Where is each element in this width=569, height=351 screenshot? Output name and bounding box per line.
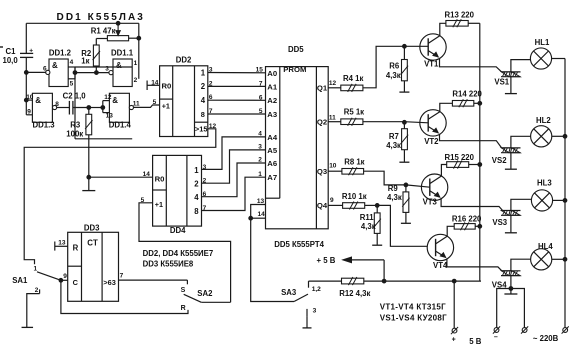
- svg-text:VT3: VT3: [423, 197, 438, 206]
- svg-text:DD1.2: DD1.2: [49, 49, 72, 58]
- wire DD1.4 output to DD2 +1 input: [134, 105, 160, 107]
- triac VS1: [501, 72, 521, 77]
- svg-text:10: 10: [329, 163, 337, 170]
- label HL3: [537, 179, 552, 188]
- pin 5 of DD5: [259, 108, 263, 115]
- wire R16 to +5V bus: [475, 225, 480, 227]
- label R15 value: [445, 153, 475, 162]
- label VS1: [494, 78, 509, 87]
- triac VS2: [501, 148, 521, 153]
- node R14 bus: [478, 101, 482, 105]
- capacitor C1: [20, 23, 33, 72]
- node VT2 base: [403, 120, 407, 124]
- label VT2: [424, 137, 439, 146]
- ground below R3: [82, 177, 95, 190]
- svg-text:VT1: VT1: [424, 60, 439, 69]
- svg-text:R11: R11: [360, 213, 375, 222]
- svg-text:&: &: [112, 96, 118, 105]
- label VT types: [380, 302, 446, 311]
- svg-text:>15: >15: [195, 125, 208, 134]
- label DD1.3: [33, 120, 56, 129]
- label DD3 type: [143, 260, 194, 269]
- svg-text:CT: CT: [87, 239, 98, 248]
- svg-text:PROM: PROM: [283, 65, 306, 74]
- label DD1.2: [49, 49, 72, 58]
- label C2 value: [63, 91, 87, 100]
- pin 15 of DD5: [256, 67, 264, 74]
- label R14 value: [452, 89, 482, 98]
- svg-text:+: +: [452, 337, 456, 344]
- wire R10 to VT4 base: [365, 205, 428, 246]
- svg-text:9: 9: [27, 108, 31, 115]
- svg-text:R5 1к: R5 1к: [344, 108, 364, 117]
- wire VS4 node to - terminal: [497, 289, 511, 328]
- svg-text:A4: A4: [267, 133, 278, 142]
- svg-text:HL3: HL3: [537, 179, 552, 188]
- contact 1 label of SA1: [34, 266, 38, 273]
- node R16 bus: [478, 224, 482, 228]
- node VT3 base: [404, 183, 408, 187]
- svg-text:14: 14: [151, 80, 159, 87]
- svg-text:3: 3: [313, 308, 317, 315]
- label R10 value: [342, 192, 367, 201]
- node HL3 bus: [563, 199, 567, 203]
- svg-text:R10 1к: R10 1к: [342, 192, 367, 201]
- pin 6 of DD5: [259, 94, 263, 101]
- label R3 value: [66, 121, 83, 139]
- svg-text:15: 15: [256, 67, 264, 74]
- wire DD2 out 4 to DD5 A2: [208, 99, 266, 101]
- transistor VT1: [420, 34, 446, 60]
- svg-text:2: 2: [258, 157, 262, 164]
- svg-text:2: 2: [201, 82, 206, 91]
- counter DD3: [68, 232, 119, 301]
- svg-text:R16 220: R16 220: [452, 215, 482, 224]
- wire R13 to +5V bus: [468, 22, 480, 24]
- wire DD3 >63 output to SA2 S contact: [119, 280, 188, 284]
- svg-text:HL1: HL1: [535, 38, 550, 47]
- pin 13 label of DD5: [257, 198, 265, 205]
- label C1 value: [3, 47, 19, 65]
- wire R4 to VT1 base: [363, 46, 405, 88]
- svg-text:2: 2: [134, 77, 138, 84]
- label VT3: [423, 197, 438, 206]
- svg-text:SA3: SA3: [281, 288, 297, 297]
- gate DD1.4 (NAND): [101, 93, 134, 122]
- wire SA3 contact to R12: [309, 280, 342, 282]
- resistor R2: [93, 39, 108, 73]
- label VS4: [492, 281, 507, 290]
- wire +5V bus vertical: [479, 23, 481, 281]
- svg-text:C1: C1: [6, 47, 17, 56]
- svg-text:2: 2: [35, 287, 39, 294]
- transistor VT3: [421, 174, 447, 200]
- svg-text:5: 5: [153, 99, 157, 106]
- label DD5: [288, 45, 304, 54]
- svg-text:DD1.3: DD1.3: [33, 120, 56, 129]
- counter DD2: [160, 66, 208, 137]
- label R1 value: [91, 26, 116, 35]
- resistor R16: [454, 222, 475, 230]
- wire DD2 out 8 to DD5 A3: [208, 113, 266, 115]
- wire DD2 out 1 to DD5 A0: [208, 72, 266, 74]
- svg-text:DD1 К555ЛА3: DD1 К555ЛА3: [57, 12, 145, 23]
- svg-text:A1: A1: [267, 83, 278, 92]
- switch SA3 arm: [294, 294, 308, 301]
- svg-text:+1: +1: [155, 200, 163, 209]
- wire R3 node to DD4 R0 pin 14: [89, 176, 153, 178]
- svg-text:VT2: VT2: [424, 137, 439, 146]
- wire DD4 out 8 to DD5 A7: [202, 177, 266, 210]
- transistor VT4: [427, 234, 453, 260]
- wire DD5 Q3 to R8: [328, 170, 342, 172]
- wire node to VT3 base: [406, 185, 430, 187]
- label SA1: [12, 276, 28, 285]
- wire DD5 pins 13/14 to SA3 common: [251, 218, 294, 301]
- left margin mark: [0, 46, 3, 48]
- svg-text:14: 14: [258, 211, 266, 218]
- wire HL3 to 220V bus: [553, 199, 565, 201]
- common bar below VS3: [505, 232, 517, 234]
- label - sign: [494, 334, 498, 341]
- wire HL4 to 220V bus: [552, 258, 565, 260]
- svg-text:HL2: HL2: [536, 116, 551, 125]
- svg-text:DD5 К555РТ4: DD5 К555РТ4: [274, 240, 324, 249]
- pin 7 of DD3: [120, 272, 124, 279]
- label VS types: [380, 313, 447, 322]
- wire DD2 out 2 to DD5 A1: [208, 85, 266, 87]
- svg-text:7: 7: [209, 108, 213, 115]
- contact 3 label of SA3: [313, 308, 317, 315]
- ground below SA3: [303, 327, 312, 329]
- node VS4 cathode: [509, 287, 513, 291]
- svg-text:9: 9: [330, 197, 334, 204]
- pin 2 of DD4: [203, 178, 207, 185]
- svg-text:A3: A3: [267, 110, 277, 119]
- ground below R6: [399, 91, 409, 93]
- svg-text:A5: A5: [267, 146, 278, 155]
- wire DD4 out 1 to DD5 A4: [202, 137, 266, 170]
- terminal +5V: [451, 327, 458, 334]
- svg-text:DD3 К555ИЕ8: DD3 К555ИЕ8: [143, 260, 194, 269]
- lamp HL2: [531, 126, 552, 147]
- svg-text:Q4: Q4: [317, 201, 328, 210]
- svg-text:5: 5: [259, 108, 263, 115]
- label HL2: [536, 116, 551, 125]
- pin 14 label of DD5: [258, 211, 266, 218]
- node +5V arrow drop: [382, 279, 386, 283]
- label ~220V: [533, 334, 559, 343]
- wire C2 node to DD1.4 inputs: [89, 107, 103, 109]
- wire DD5 Q1 to R4: [328, 87, 341, 89]
- pin 4 of DD1.2: [70, 59, 74, 66]
- label DD4: [170, 226, 186, 235]
- label R13 value: [445, 11, 475, 20]
- pin 10 of DD5: [329, 163, 337, 170]
- svg-text:2: 2: [203, 178, 207, 185]
- wire VT4 collector to R16: [447, 226, 454, 236]
- pin 3 of DD5: [258, 144, 262, 151]
- transistor VT2: [420, 110, 446, 136]
- wire DD1.2 inputs to DD1.1 output: [75, 72, 109, 74]
- resistor R6: [401, 46, 408, 91]
- svg-text:A2: A2: [267, 96, 277, 105]
- pin 12 of DD5: [329, 80, 337, 87]
- wire VT3 emitter to VS3 gate: [441, 198, 503, 210]
- svg-text:DD5: DD5: [288, 45, 304, 54]
- svg-text:+ 5 В: + 5 В: [317, 256, 336, 265]
- svg-text:3: 3: [209, 67, 213, 74]
- labels inside DD5: [267, 65, 328, 210]
- label R8 value: [344, 158, 364, 167]
- svg-text:6: 6: [43, 66, 47, 73]
- svg-text:R0: R0: [162, 82, 172, 91]
- svg-text:5 В: 5 В: [469, 337, 482, 346]
- wire VS1 cathode: [510, 77, 512, 94]
- pin 12 of DD1.4: [104, 94, 112, 101]
- svg-text:9: 9: [63, 273, 67, 280]
- wire R14 to +5V bus: [474, 102, 480, 104]
- label R11 value: [360, 213, 376, 231]
- terminal minus: [493, 326, 500, 333]
- resistor R7: [401, 122, 408, 162]
- common bar below VS4: [504, 289, 517, 295]
- svg-text:4,3к: 4,3к: [361, 222, 376, 231]
- svg-text:1: 1: [194, 166, 199, 175]
- svg-text:~ 220В: ~ 220В: [533, 334, 559, 343]
- wire VS4 cathode: [510, 276, 512, 289]
- wire VT3 collector to R15: [441, 165, 446, 177]
- svg-text:3: 3: [258, 144, 262, 151]
- node R3 bottom / DD4 R0: [87, 175, 91, 179]
- capacitor C2: [69, 101, 88, 115]
- svg-text:VT1-VT4 КТ315Г: VT1-VT4 КТ315Г: [380, 302, 446, 311]
- label VS3: [492, 218, 507, 227]
- svg-text:–: –: [494, 334, 498, 341]
- svg-text:R: R: [73, 243, 79, 252]
- label +5V: [317, 256, 336, 265]
- node R10/R11: [375, 204, 379, 208]
- wire VT2 collector to R14: [440, 103, 453, 111]
- svg-text:R13 220: R13 220: [445, 11, 475, 20]
- wire left vertical to DD1.3 inputs: [24, 72, 32, 114]
- pin 13 label of DD3: [58, 239, 66, 246]
- svg-text:2: 2: [194, 180, 199, 189]
- label + sign: [452, 337, 456, 344]
- svg-text:R1 47к: R1 47к: [91, 26, 116, 35]
- svg-text:1: 1: [134, 60, 138, 67]
- svg-text:3: 3: [203, 164, 207, 171]
- svg-text:10: 10: [26, 94, 34, 101]
- wire VT2 emitter to VS2 gate: [440, 134, 502, 148]
- pin 3 of DD2: [209, 67, 213, 74]
- svg-text:4,3к: 4,3к: [386, 141, 401, 150]
- switch SA1 arm: [37, 272, 61, 281]
- svg-text:6: 6: [259, 94, 263, 101]
- svg-text:Q2: Q2: [317, 118, 327, 127]
- wire HL2 to 220V bus: [552, 135, 565, 137]
- PROM DD5: [266, 67, 329, 229]
- svg-text:4: 4: [258, 131, 262, 138]
- svg-text:R9: R9: [388, 184, 399, 193]
- svg-text:VS1-VS4 КУ208Г: VS1-VS4 КУ208Г: [380, 313, 447, 322]
- resistor R15: [447, 161, 469, 169]
- svg-text:1к: 1к: [81, 57, 89, 66]
- svg-text:13: 13: [106, 113, 114, 120]
- svg-text:6: 6: [209, 94, 213, 101]
- label VS2: [492, 156, 507, 165]
- label DD2: [176, 55, 192, 64]
- wire node to DD3 C pin 9: [61, 279, 68, 281]
- label 5 V: [469, 337, 482, 346]
- pin 3 of DD4: [203, 164, 207, 171]
- contact 2 label of SA1: [35, 287, 39, 294]
- label R4 value: [343, 74, 363, 83]
- pin 9 of DD3: [63, 273, 67, 280]
- node HL4 bus: [563, 257, 567, 261]
- svg-text:7: 7: [259, 80, 263, 87]
- lamp HL3: [531, 190, 552, 211]
- pin 1 of DD5: [258, 171, 262, 178]
- svg-text:1: 1: [258, 171, 262, 178]
- wiper arrow of R1: [116, 21, 120, 35]
- svg-text:Q3: Q3: [317, 167, 327, 176]
- svg-text:&: &: [116, 61, 122, 70]
- contact 3 of SA3: [306, 309, 308, 328]
- wire VS2 anode to HL2: [511, 136, 531, 148]
- svg-text:SA2: SA2: [197, 289, 213, 298]
- svg-text:8: 8: [201, 110, 205, 119]
- pins 13 14 of DD5: [249, 205, 266, 221]
- wire DD1.2 output to node: [26, 71, 45, 73]
- wire DD5 Q4 to R10: [328, 204, 342, 206]
- contact 1,2 label of SA3: [312, 286, 321, 293]
- pin 5 of DD4: [141, 197, 145, 204]
- node HL2 bus: [563, 134, 567, 138]
- svg-text:DD4: DD4: [170, 226, 186, 235]
- wire DD4 +1 from SA2 common: [139, 203, 231, 302]
- svg-text:VS1: VS1: [494, 78, 509, 87]
- wire VS4 anode to HL4: [511, 259, 531, 271]
- pin 13 marker of DD3: [55, 242, 68, 251]
- label R9 value: [387, 184, 402, 202]
- wire R15 to +5V bus: [469, 164, 480, 166]
- gate DD1.3 (NAND): [32, 93, 56, 122]
- switch SA2 arm: [184, 294, 231, 302]
- terminal 220V b: [562, 326, 569, 333]
- svg-text:&: &: [52, 61, 58, 70]
- lamp HL4: [531, 249, 552, 270]
- pin 13 of DD1.4: [106, 113, 114, 120]
- pin 7 of DD2: [209, 108, 213, 115]
- label R16 value: [452, 215, 482, 224]
- ground below SA1: [22, 326, 34, 328]
- svg-text:1,2: 1,2: [312, 286, 321, 293]
- wire VS1 anode to HL1: [511, 60, 531, 72]
- svg-text:8: 8: [194, 207, 199, 216]
- pin 3 of DD1.1: [105, 65, 109, 72]
- wire 220V bus: [564, 59, 566, 328]
- svg-text:11: 11: [133, 100, 140, 107]
- wire DD4 out 2 to DD5 A5: [202, 150, 266, 183]
- contact 1,2 of SA3: [308, 281, 310, 288]
- svg-text:VT4: VT4: [433, 261, 448, 270]
- svg-text:11: 11: [329, 114, 336, 121]
- node R15 bus: [478, 163, 482, 167]
- svg-text:DD2: DD2: [176, 55, 192, 64]
- svg-text:DD3: DD3: [84, 224, 100, 233]
- wire VS3 cathode: [510, 215, 512, 232]
- svg-text:8: 8: [55, 101, 59, 108]
- wire HL1 to 220V bus: [552, 58, 565, 60]
- node +5V terminal drop: [452, 279, 456, 283]
- ground below R7: [399, 161, 409, 163]
- label DD1.1: [111, 49, 134, 58]
- svg-text:Q1: Q1: [317, 84, 328, 93]
- svg-text:10,0: 10,0: [3, 56, 19, 65]
- node R2 bottom: [95, 71, 99, 75]
- triac VS4: [501, 271, 521, 276]
- resistor R11: [374, 205, 381, 244]
- svg-text:13: 13: [257, 198, 265, 205]
- resistor R12: [342, 277, 364, 285]
- svg-text:+1: +1: [162, 101, 170, 110]
- wire VT4 emitter to VS4 gate: [447, 258, 502, 270]
- contact S label of SA2: [181, 287, 186, 294]
- common bar below VS2: [505, 168, 517, 170]
- svg-text:HL4: HL4: [538, 242, 553, 251]
- wire DD3 C node to SA2 R contact: [61, 280, 188, 313]
- svg-text:DD1.1: DD1.1: [111, 49, 134, 58]
- svg-text:3: 3: [105, 65, 109, 72]
- gate DD1.1 (NAND, mirrored): [75, 59, 132, 139]
- wire node to VT1 base: [404, 45, 428, 47]
- svg-text:13: 13: [58, 239, 66, 246]
- label VT4: [433, 261, 448, 270]
- svg-text:1: 1: [34, 266, 38, 273]
- svg-text:SA1: SA1: [12, 276, 28, 285]
- pin 9 of DD1.3: [27, 108, 31, 115]
- label SA2: [197, 289, 213, 298]
- wire DD2 >15 to SA1 contact 1: [24, 129, 216, 264]
- label DD3: [84, 224, 100, 233]
- resistor R8: [342, 167, 364, 175]
- label HL1: [535, 38, 550, 47]
- pin 2 of DD2: [209, 80, 213, 87]
- common bar below VS1: [505, 93, 517, 95]
- wire VT1 emitter to VS1 gate: [440, 58, 502, 72]
- svg-text:S: S: [181, 287, 186, 294]
- label R6 value: [386, 61, 401, 80]
- svg-text:4,3к: 4,3к: [387, 193, 402, 202]
- node R1 right / rail: [137, 36, 141, 40]
- pin 7 of DD4: [203, 205, 207, 212]
- svg-text:4: 4: [201, 96, 206, 105]
- pin 14 label of DD2: [151, 80, 159, 87]
- pin 8 of DD1.3: [55, 101, 59, 108]
- wire VT1 collector to R13: [440, 23, 446, 36]
- label R7 value: [386, 132, 401, 150]
- svg-text:7: 7: [203, 205, 207, 212]
- resistor R10: [343, 202, 365, 210]
- svg-text:DD1.4: DD1.4: [109, 120, 132, 129]
- svg-text:C: C: [73, 278, 79, 287]
- wire top rail (C1 / R1 wiper / DD1.1 inputs): [26, 22, 139, 24]
- svg-text:12: 12: [329, 80, 337, 87]
- node DD3 C input / SA1 common: [59, 278, 63, 282]
- wire DD5 Q2 to R5: [328, 121, 341, 123]
- pin 12 of DD2: [209, 123, 217, 130]
